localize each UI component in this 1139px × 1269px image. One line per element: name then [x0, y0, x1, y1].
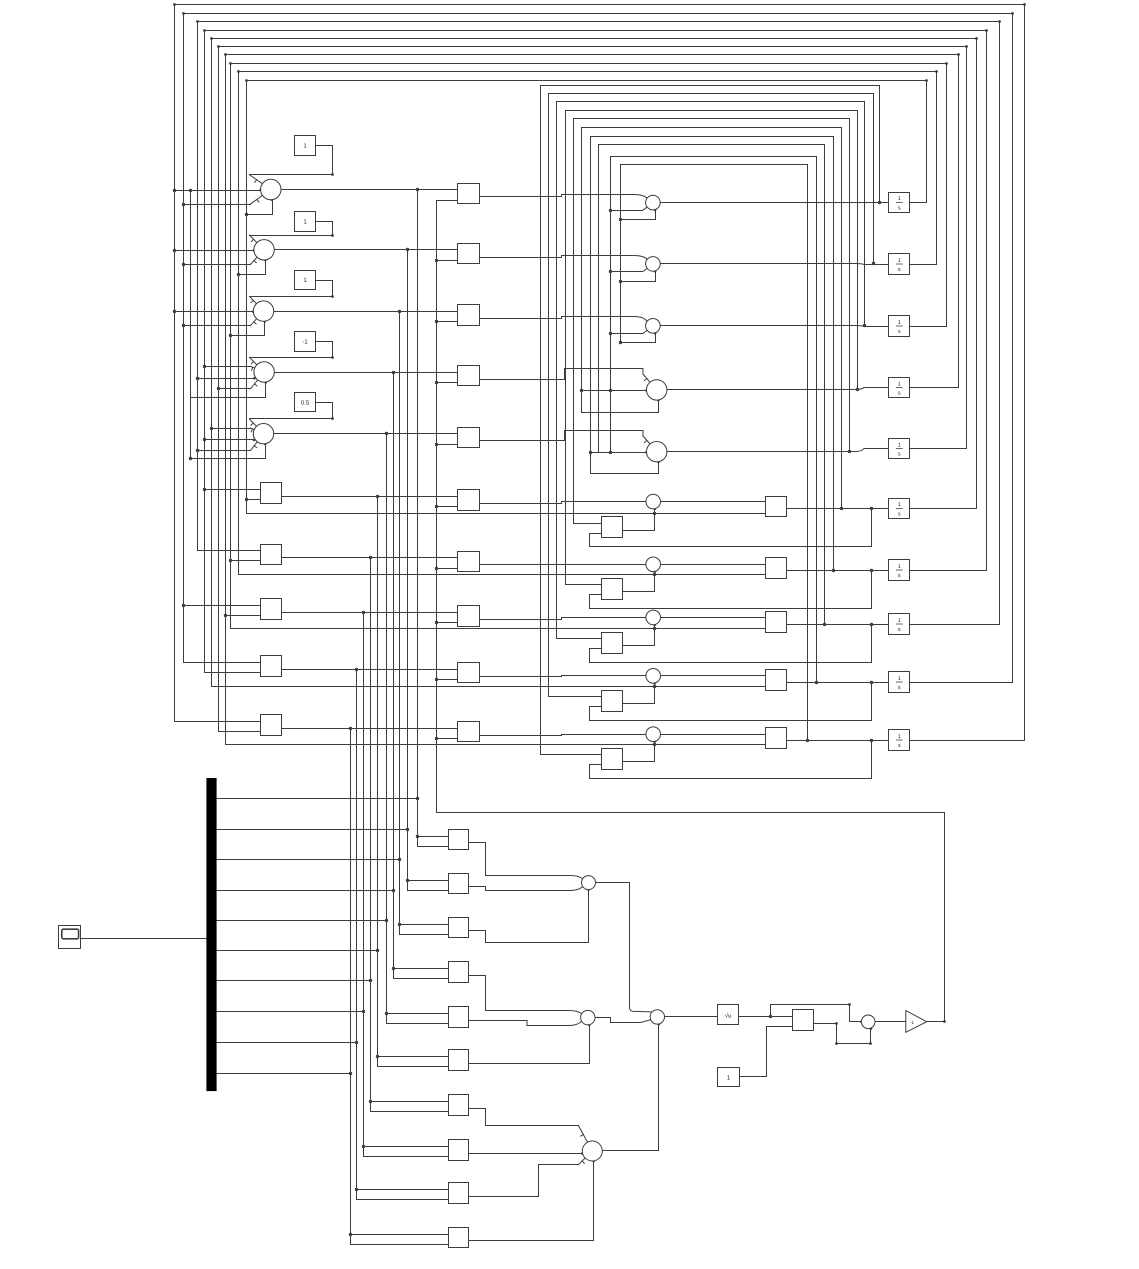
- norm gain square 7: [449, 1095, 469, 1116]
- wire: row 5 gain output to product: [480, 431, 643, 441]
- wire: row 5 sum lower input: [198, 450, 251, 452]
- wire: integrator 4 output feedback loop: [226, 55, 959, 745]
- wire: integrator 10 output feedback loop: [175, 5, 1025, 741]
- wire: row 1 sum main input: [175, 190, 261, 192]
- wire: row 10 right gain output to integrator: [787, 740, 889, 742]
- wire: row 8 tap down to sub gain: [590, 625, 872, 663]
- wire: integrator 2 output feedback loop: [239, 72, 937, 575]
- sum block row 4: [254, 362, 274, 382]
- integrator block 1/s row 5: [889, 439, 910, 459]
- wire: row 7 right gain output to integrator: [787, 570, 889, 572]
- wire: row 6 tap down to sub gain: [590, 509, 872, 547]
- integrator block 1/s row 10: [889, 730, 910, 751]
- wire: derivative cross-coupling loop (row 5): [574, 119, 850, 524]
- product block row 7: [646, 557, 661, 572]
- constant block C1 (value 1): [295, 136, 316, 156]
- wire: mux input 2: [217, 829, 408, 831]
- wire: square5 output to sum B: [469, 1021, 582, 1026]
- wire: row 7 gain output to product: [480, 564, 646, 566]
- wire: sqrt bypass to sum E: [771, 1005, 862, 1022]
- svg-text:s: s: [898, 512, 901, 518]
- sum block E: [861, 1015, 875, 1029]
- wire: state 9 tap down to mux and norm gain: [357, 670, 449, 1200]
- norm gain square 9: [449, 1183, 469, 1204]
- integrator block 1/s row 7: [889, 560, 910, 581]
- wire: row 4 product left input: [582, 390, 647, 392]
- norm gain square 10: [449, 1228, 469, 1248]
- wire: row 3 sum lower input: [184, 325, 251, 327]
- wire: feedback stub row 10: [437, 738, 458, 740]
- sub gain block row 8: [602, 633, 623, 654]
- wire: state 6 tap down to mux and norm gain: [378, 497, 449, 1067]
- sqrt block: [718, 1005, 739, 1025]
- integrator block 1/s row 2: [889, 254, 910, 275]
- wire: feedback stub row 4: [437, 382, 458, 384]
- norm gain square 3: [449, 918, 469, 938]
- wire: row 10 tap down to sub gain: [590, 741, 872, 779]
- wire: row 5 sum output to gain: [274, 433, 458, 435]
- wire: row 10 product output to right gain: [661, 734, 766, 736]
- left bus short connector leg: [190, 191, 192, 459]
- wire: row 5 product left input: [591, 452, 647, 454]
- svg-text:1: 1: [898, 320, 901, 326]
- integrator block 1/s row 6: [889, 499, 910, 519]
- wire: row 10 gain output to product: [480, 735, 646, 736]
- wire: row 7 block output to gain: [282, 557, 458, 559]
- product block row 6: [646, 494, 661, 509]
- product block row 2: [646, 257, 661, 272]
- wire: mux input 9: [217, 1042, 357, 1044]
- wire: row 4 sum main input: [198, 378, 255, 380]
- wire: derivative cross-coupling loop (row 4): [566, 111, 858, 585]
- svg-text:s: s: [898, 627, 901, 633]
- sum block row 5: [253, 424, 273, 444]
- wire: derivative cross-coupling loop (row 3): [557, 102, 865, 639]
- svg-text:-1: -1: [910, 1020, 914, 1025]
- product block row 8: [646, 610, 661, 625]
- wire: square4 output to sum B: [469, 976, 582, 1014]
- wire: row 6 product output to right gain: [661, 501, 766, 503]
- wire: row 8 gain output to product: [480, 618, 646, 620]
- wire: mux input 3: [217, 859, 400, 861]
- sub gain block row 10: [602, 749, 623, 770]
- wire: row 6 lower bus line to product and right gain: [247, 513, 766, 515]
- wire: row 3 product bottom input: [621, 334, 656, 343]
- right gain block row 9: [766, 670, 787, 691]
- svg-text:s: s: [898, 206, 901, 212]
- gain block row 1 (normalised): [458, 184, 480, 204]
- constant block C3 (value 1): [295, 271, 316, 290]
- scope block: [59, 926, 81, 949]
- constant block (value 1): [718, 1068, 740, 1087]
- wire: square2 output to sum A: [469, 887, 583, 891]
- wire: normalisation feedback from triangle gain up to all gains: [437, 201, 945, 1022]
- wire: row 4 sum upper input: [205, 366, 251, 368]
- wire: row 9 gain output to product: [480, 676, 646, 677]
- norm gain square 5: [449, 1007, 469, 1028]
- wire: feedback stub row 9: [437, 679, 458, 681]
- wire: state 7 tap down to mux and norm gain: [371, 558, 449, 1112]
- svg-text:1: 1: [898, 196, 901, 202]
- wire: derivative cross-coupling loop (row 1): [541, 86, 880, 755]
- wire: row 4 product output to integrator: [667, 388, 889, 390]
- wire: row 8 block output to gain: [282, 612, 458, 614]
- wire: state 3 tap down to mux and norm gain: [400, 312, 449, 935]
- wire: divide output to sum E bottom: [814, 1024, 871, 1044]
- wire: row 5 constant loop into sum: [250, 403, 333, 419]
- wire: mux input 6: [217, 950, 378, 952]
- wire: row 5 product output to integrator: [667, 449, 889, 452]
- wire: row 9 block lower input: [205, 672, 261, 674]
- svg-text:1: 1: [898, 734, 901, 740]
- wire: feedback stub row 2: [437, 260, 458, 262]
- wire: feedback stub row 7: [437, 568, 458, 570]
- wire: row 2 gain output to product: [480, 256, 649, 260]
- svg-text:s: s: [898, 573, 901, 579]
- wire: row 1 product lower-left input: [611, 210, 643, 212]
- wire: row 8 sub gain output up to product: [623, 625, 655, 646]
- mux block: [207, 779, 216, 1091]
- wire: row 9 block output to gain: [282, 669, 458, 671]
- wire: square7 output to sum D: [469, 1109, 579, 1126]
- wire: mux input 1: [217, 798, 418, 800]
- wire: row 1 sum bottom input: [247, 200, 273, 215]
- sum block row 2: [254, 240, 274, 260]
- norm gain square 2: [449, 874, 469, 894]
- sum block row 1: [261, 179, 281, 199]
- wire: state 5 tap down to mux and norm gain: [387, 434, 449, 1024]
- wire: row 9 sub gain output up to product: [623, 684, 655, 704]
- wire: row 4 constant loop into sum: [250, 342, 333, 358]
- wire: integrator 6 output feedback loop: [212, 39, 977, 687]
- triangle gain block: [906, 1011, 927, 1033]
- wire: integrator 8 output feedback loop: [198, 22, 1000, 625]
- wire: row 3 constant loop into sum: [250, 281, 333, 297]
- wire: square3 output to sum A: [469, 890, 589, 943]
- product block row 9: [646, 669, 661, 684]
- gain block row 6 (left): [261, 483, 282, 504]
- wire: row 9 product output to right gain: [661, 675, 766, 677]
- sub gain block row 7: [602, 579, 623, 600]
- svg-text:s: s: [898, 743, 901, 749]
- wire: state 2 tap down to mux and norm gain: [408, 250, 449, 891]
- gain block row 7 (left): [261, 545, 282, 565]
- wire: row 2 product lower-left input: [611, 271, 643, 273]
- wire: row 5 sum bottom input: [191, 444, 266, 459]
- wire: row 2 sum bottom input: [239, 261, 266, 275]
- wire: row 3 gain output to product: [480, 317, 649, 322]
- wire: row 8 lower bus line to product and right gain: [231, 628, 766, 630]
- wire: row 1 product output to integrator: [661, 202, 889, 204]
- wire: row 10 block upper input: [175, 721, 261, 723]
- wire: square8 output to sum D: [469, 1153, 583, 1155]
- gain block row 3 (normalised): [458, 305, 480, 326]
- svg-text:-1: -1: [302, 339, 308, 346]
- wire: integrator 3 output feedback loop: [231, 64, 947, 629]
- wire: row 7 product output to right gain: [661, 564, 766, 566]
- product block row 5: [647, 442, 667, 462]
- gain block row 10 (normalised): [458, 722, 480, 742]
- norm gain square 6: [449, 1050, 469, 1071]
- wire: row 2 sum output to gain: [275, 249, 458, 251]
- wire: row 9 tap down to sub gain: [590, 683, 872, 721]
- gain block row 2 (normalised): [458, 244, 480, 264]
- wire: row 6 block upper input: [205, 489, 261, 491]
- wire: feedback stub row 6: [437, 506, 458, 508]
- wire: row 2 constant loop into sum: [250, 222, 333, 236]
- wire: integrator 7 output feedback loop: [205, 31, 987, 673]
- constant block C5 (value 0.5): [295, 393, 316, 412]
- wire: row 8 product output to right gain: [661, 617, 766, 619]
- product block row 3: [646, 319, 661, 334]
- wire: row 7 block lower input: [231, 560, 261, 562]
- norm gain square 4: [449, 962, 469, 983]
- norm gain square 1: [449, 830, 469, 850]
- wire: row 10 lower bus line to product and right gain: [226, 744, 766, 746]
- wire: row 3 product output to integrator: [660, 326, 889, 327]
- svg-text:s: s: [898, 452, 901, 458]
- gain block row 8 (normalised): [458, 606, 480, 627]
- right gain block row 10: [766, 728, 787, 749]
- wire: feedback stub row 3: [437, 321, 458, 323]
- wire: row 1 gain output to product: [480, 195, 649, 199]
- wire: feedback stub row 8: [437, 622, 458, 624]
- svg-text:1: 1: [898, 564, 901, 570]
- wire: derivative cross-coupling loop (row 2): [549, 94, 874, 697]
- product block row 4: [647, 380, 667, 400]
- wire: row 4 gain output to product: [480, 369, 643, 380]
- product block row 1: [646, 195, 661, 210]
- wire: row 6 block lower input: [247, 499, 261, 501]
- svg-text:√u: √u: [725, 1013, 732, 1020]
- wire: row 5 sum upper input: [212, 428, 251, 430]
- wire: row 2 product output to integrator: [660, 264, 889, 265]
- gain block row 10 (left): [261, 715, 282, 736]
- wire: row 8 block upper input: [184, 605, 261, 607]
- wire: row 9 right gain output to integrator: [787, 682, 889, 684]
- wire: row 1 sum output to gain: [281, 189, 458, 191]
- wire: row 3 sum bottom input: [231, 322, 265, 336]
- gain block row 9 (left): [261, 656, 282, 677]
- svg-text:1: 1: [898, 381, 901, 387]
- wire: row 4 sum output to gain: [275, 372, 458, 374]
- wire: row 2 sum main input: [175, 250, 254, 252]
- wire: feedback stub row 1: [437, 200, 458, 202]
- wire: row 4 sum bottom input: [191, 383, 266, 398]
- svg-text:1: 1: [898, 502, 901, 508]
- wire: row 6 block output to gain: [282, 496, 458, 498]
- wire: integrator 9 output feedback loop: [184, 14, 1013, 683]
- wire: row 6 right gain output to integrator: [787, 508, 889, 510]
- divide block: [793, 1010, 814, 1031]
- constant block C2 (value 1): [295, 212, 316, 232]
- wire: mux input 7: [217, 980, 371, 982]
- svg-text:1: 1: [898, 618, 901, 624]
- sum block B: [581, 1010, 595, 1024]
- wire: row 3 sum output to gain: [274, 311, 458, 313]
- svg-text:s: s: [898, 391, 901, 397]
- svg-text:s: s: [898, 685, 901, 691]
- gain block row 7 (normalised): [458, 552, 480, 572]
- wire: row 8 right gain output to integrator: [787, 624, 889, 626]
- wire: row 7 block upper input: [198, 550, 261, 552]
- wire: mux input 8: [217, 1011, 364, 1013]
- wire: row 7 sub gain output up to product: [623, 572, 655, 592]
- wire: state 10 tap down to mux and norm gain: [351, 729, 449, 1245]
- wire: state 4 tap down to mux and norm gain: [394, 373, 449, 979]
- wire: state 8 tap down to mux and norm gain: [364, 613, 449, 1157]
- integrator block 1/s row 3: [889, 316, 910, 337]
- integrator block 1/s row 8: [889, 614, 910, 635]
- wire: derivative cross-coupling loop (row 10): [621, 165, 808, 741]
- wire: derivative cross-coupling loop (row 7): [591, 137, 834, 571]
- gain block row 8 (left): [261, 599, 282, 620]
- wire: row 1 sum lower input: [184, 204, 251, 206]
- integrator block 1/s row 1: [889, 193, 910, 213]
- wire: row 9 block upper input: [184, 662, 261, 664]
- wire: integrator 5 output feedback loop: [219, 47, 967, 732]
- gain block row 5 (normalised): [458, 428, 480, 448]
- constant block C4 (value -1): [295, 332, 316, 352]
- wire: sum E output to triangle gain: [875, 1021, 906, 1023]
- wire: row 6 gain output to product: [480, 502, 646, 504]
- wire: derivative cross-coupling loop (row 8): [599, 145, 825, 625]
- sum block D: [582, 1141, 602, 1161]
- wire: row 10 sub gain output up to product: [623, 742, 655, 762]
- wire: sum D output to sum C bottom: [603, 1025, 659, 1151]
- wire: derivative cross-coupling loop (row 9): [611, 157, 817, 683]
- wire: row 10 block lower input: [219, 731, 261, 733]
- wire: mux input 5: [217, 920, 387, 922]
- sub gain block row 9: [602, 691, 623, 712]
- wire: sum A output to sum C: [596, 883, 630, 1008]
- right gain block row 8: [766, 612, 787, 633]
- wire: square1 output to sum A: [469, 843, 583, 879]
- wire: row 8 block lower input: [226, 615, 261, 617]
- right gain block row 6: [766, 497, 787, 517]
- wire: row 2 product bottom input: [621, 272, 656, 282]
- norm gain square 8: [449, 1140, 469, 1161]
- gain block row 9 (normalised): [458, 663, 480, 683]
- wire: row 2 sum lower input: [184, 264, 251, 266]
- svg-text:1: 1: [898, 442, 901, 448]
- sum block A: [582, 876, 596, 890]
- wire: sum B output to sum C: [595, 1018, 652, 1023]
- wire: row 1 product bottom input: [621, 211, 656, 220]
- wire: feedback stub row 5: [437, 444, 458, 446]
- wire: row 5 sum main input: [205, 439, 254, 441]
- wire: row 3 product lower-left input: [611, 333, 643, 335]
- gain block row 4 (normalised): [458, 366, 480, 386]
- wire: row 9 lower bus line to product and right gain: [212, 686, 766, 688]
- wire: square9 output to sum D: [470, 1165, 579, 1197]
- wire: integrator 1 output feedback loop: [247, 81, 927, 514]
- wire: square6 output to sum B: [469, 1025, 590, 1064]
- wire: square10 output to sum D: [469, 1161, 594, 1241]
- wire: mux input 10: [217, 1073, 351, 1075]
- sum block row 3: [253, 301, 273, 321]
- wire: row 6 sub gain output up to product: [623, 509, 655, 531]
- wire: row 1 constant loop into sum: [250, 146, 333, 175]
- sub gain block row 6: [602, 517, 623, 538]
- wire: row 3 sum main input: [175, 311, 254, 313]
- wire: row 7 tap down to sub gain: [590, 571, 872, 609]
- svg-text:s: s: [898, 267, 901, 273]
- wire: sqrt output junction: [739, 1016, 793, 1018]
- svg-text:1: 1: [898, 676, 901, 682]
- gain block row 6 (normalised): [458, 490, 480, 511]
- wire: row 7 lower bus line to product and right gain: [239, 574, 766, 576]
- sum block C: [650, 1010, 664, 1024]
- wire: constant loop to divide: [740, 1027, 793, 1077]
- right gain block row 7: [766, 558, 787, 579]
- integrator block 1/s row 4: [889, 378, 910, 398]
- wire: row 10 block output to gain: [282, 728, 458, 730]
- svg-text:0.5: 0.5: [301, 400, 310, 407]
- wire: mux input 4: [217, 890, 394, 892]
- wire: state 1 tap down to mux and norm gain: [418, 190, 449, 847]
- product block row 10: [646, 727, 661, 742]
- wire: derivative cross-coupling loop (row 6): [582, 128, 842, 509]
- wire: row 4 sum lower input: [219, 388, 251, 390]
- svg-text:1: 1: [898, 258, 901, 264]
- svg-text:s: s: [898, 329, 901, 335]
- wire: sum C output to sqrt: [665, 1016, 718, 1018]
- integrator block 1/s row 9: [889, 672, 910, 693]
- wire: mux output to scope: [81, 938, 207, 940]
